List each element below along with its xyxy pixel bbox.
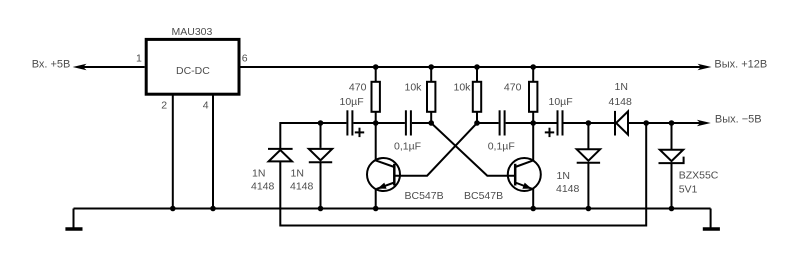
node: VD5 bottom on ground rail [669, 206, 675, 212]
wire: C1 to C2 segment [353, 122, 405, 124]
wire: C3 to C4 segment [506, 122, 557, 124]
svg-text:4148: 4148 [609, 96, 633, 108]
wire: VD3 anode drop [587, 123, 589, 149]
node: VD2 top on mid line [318, 120, 324, 126]
svg-text:BC547B: BC547B [405, 190, 444, 202]
node: R4 top on +12V rail [530, 64, 536, 70]
svg-text:1N: 1N [291, 168, 304, 180]
svg-text:470: 470 [504, 82, 522, 94]
svg-text:470: 470 [349, 82, 367, 94]
wire: pin 2 down to ground rail [172, 94, 174, 208]
node: VD2 bottom on ground rail [318, 206, 324, 212]
capacitor C4 10μF polarized [558, 110, 563, 135]
wire: input +5V from arrow to pin 1 [80, 66, 145, 68]
svg-text:10µF: 10µF [549, 96, 573, 108]
resistor R3 10k [473, 67, 481, 123]
capacitor C2 0,1μF [406, 110, 411, 135]
node B1: R2 bottom [428, 120, 434, 126]
svg-text:4148: 4148 [556, 183, 580, 195]
wire: pin 6 to +12V output rail [240, 66, 702, 68]
svg-text:10k: 10k [454, 82, 472, 94]
resistor R4 470 [529, 67, 537, 123]
zener VD5 BZX55C 5V1 (anode up) [659, 150, 684, 163]
svg-text:6: 6 [242, 53, 248, 65]
diode VD2 1N4148 (anode up) [309, 149, 332, 162]
diode VD4 1N4148 horizontal (cathode left) [615, 111, 628, 136]
svg-text:4148: 4148 [290, 181, 314, 193]
svg-text:1N: 1N [557, 170, 570, 182]
node: pin 2 on ground rail [170, 206, 176, 212]
svg-text:MAU303: MAU303 [172, 26, 213, 38]
resistor R2 10k [427, 67, 435, 123]
polarity + of C4 [545, 128, 554, 137]
wire: zener VD5 anode drop [671, 123, 673, 149]
node: VT1 emitter on ground rail [373, 206, 379, 212]
node: VT2 emitter on ground rail [530, 206, 536, 212]
svg-text:BC547B: BC547B [464, 190, 503, 202]
wire: VT1 base lead and cross-coupling diagonal to node B2 [394, 123, 477, 176]
node: VT1 collector [373, 120, 379, 126]
node: VD5 top on -5V line [669, 120, 675, 126]
svg-text:BZX55C: BZX55C [679, 170, 719, 182]
wire: pin 4 down to ground rail [212, 94, 214, 208]
svg-text:Вх. +5В: Вх. +5В [32, 58, 71, 70]
node: VD3 top on -5V line [586, 120, 592, 126]
polarity + of C1 [355, 128, 364, 137]
capacitor C3 0,1μF [500, 110, 505, 135]
svg-text:1: 1 [136, 53, 142, 65]
resistor R1 470 [372, 67, 380, 123]
node: pin 4 on ground rail [210, 206, 216, 212]
svg-text:2: 2 [161, 99, 167, 111]
node B2: R3 bottom [474, 120, 480, 126]
node: R1 top on +12V rail [373, 64, 379, 70]
wire: C2 to node B1 [412, 122, 431, 124]
transistor VT2 BC547B [508, 123, 541, 209]
wire: VD3 cathode to ground rail [587, 162, 589, 209]
svg-text:DC-DC: DC-DC [176, 65, 210, 77]
diode VD1 1N4148 (cathode up) [268, 149, 293, 162]
wire: lower -5V return rail [280, 123, 646, 226]
wire: mid line from D1 corner to C1 [280, 123, 346, 148]
svg-text:1N: 1N [615, 81, 628, 93]
node: VD3 bottom on ground rail [586, 206, 592, 212]
svg-text:5V1: 5V1 [679, 184, 698, 196]
wire: VT2 base lead and cross-coupling diagonal to node B1 [431, 123, 515, 176]
transistor VT1 BC547B [367, 123, 400, 209]
wire: zener VD5 cathode to ground rail [671, 163, 673, 209]
wire: D2 cathode to ground rail [320, 162, 322, 208]
wire: VD4 to -5V output arrow [628, 122, 702, 124]
DC-DC converter U1 MAU303 box [146, 39, 239, 94]
ground symbol right [703, 209, 720, 230]
svg-text:4148: 4148 [251, 181, 275, 193]
arrow: input Вх. +5В [73, 64, 87, 70]
wire: node B2 to C3 [477, 122, 499, 124]
node: VT2 collector [530, 120, 536, 126]
svg-text:4: 4 [203, 99, 209, 111]
svg-text:0,1µF: 0,1µF [488, 140, 515, 152]
wire: D2 anode drop [320, 123, 322, 148]
svg-text:1N: 1N [252, 168, 265, 180]
svg-text:10µF: 10µF [340, 96, 364, 108]
svg-text:Вых. −5В: Вых. −5В [715, 114, 762, 126]
node: R3 top on +12V rail [474, 64, 480, 70]
arrow: output Вых. +12В [698, 64, 712, 70]
wire: ground rail [74, 208, 711, 210]
svg-text:10k: 10k [405, 82, 423, 94]
wire: C4 to diode VD4 [564, 122, 615, 124]
svg-text:Вых. +12В: Вых. +12В [714, 58, 767, 70]
svg-text:0,1µF: 0,1µF [394, 140, 421, 152]
diode VD3 1N4148 (anode up) [577, 149, 600, 162]
node: R2 top on +12V rail [428, 64, 434, 70]
arrow: output Вых. -5В [697, 120, 711, 126]
node: lower rail riser on -5V line [643, 120, 649, 126]
ground symbol left [65, 209, 82, 230]
capacitor C1 10μF polarized [347, 110, 352, 135]
